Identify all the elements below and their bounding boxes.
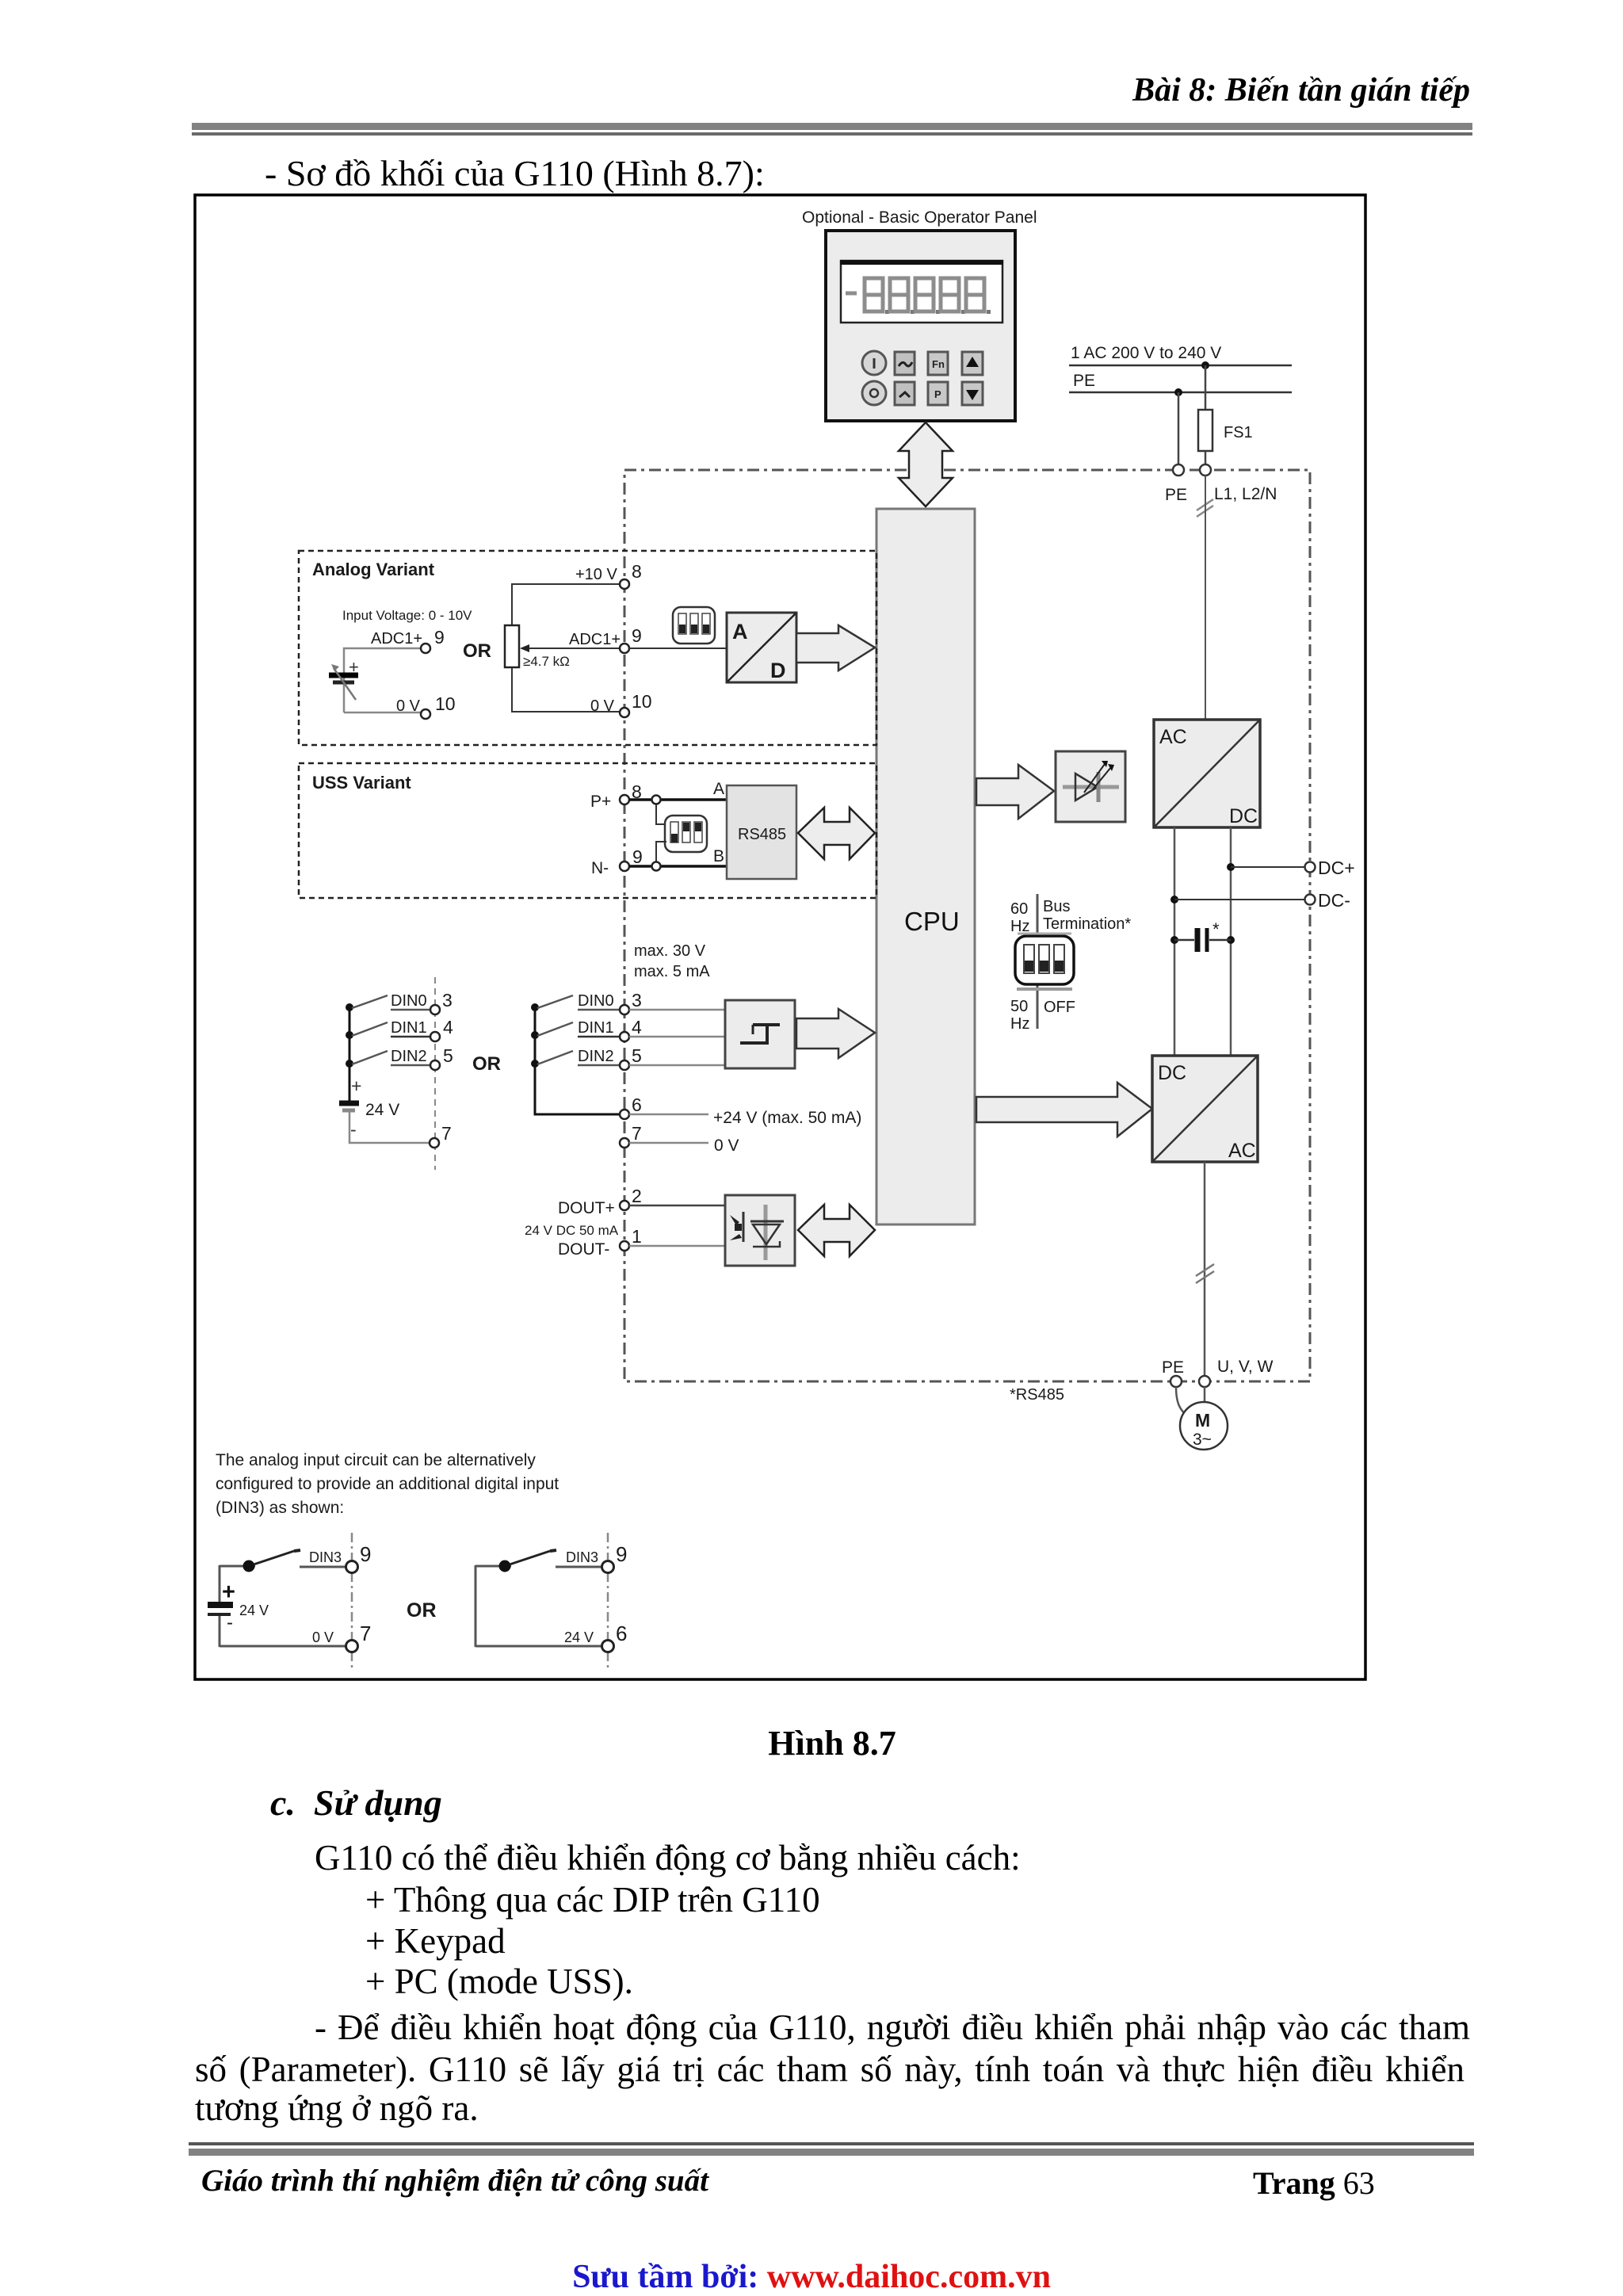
DIN3 right circuit wires xyxy=(475,1565,602,1647)
node DIN2 right xyxy=(531,1060,539,1068)
svg-text:DIN0: DIN0 xyxy=(391,992,427,1010)
terminal 9 USS xyxy=(620,846,643,871)
BOP buttons xyxy=(862,351,983,405)
node DC+ xyxy=(1227,863,1235,871)
svg-text:Termination*: Termination* xyxy=(1043,915,1131,933)
wire: wiper to terminal 9 xyxy=(520,644,620,652)
label DOUT- xyxy=(558,1240,609,1259)
wire DOUT+ xyxy=(629,1205,725,1207)
wire DC bus right xyxy=(1230,827,1232,1056)
label A xyxy=(713,780,724,798)
svg-text:5: 5 xyxy=(443,1045,453,1066)
wire: L1 drop xyxy=(1205,365,1207,410)
cable break mark xyxy=(1197,499,1213,517)
svg-text:-: - xyxy=(350,1119,357,1140)
svg-text:OR: OR xyxy=(407,1599,437,1622)
svg-text:9: 9 xyxy=(616,1542,627,1566)
switch DIN0 left xyxy=(352,995,388,1008)
terminal 6 xyxy=(620,1095,642,1119)
switch DIN3 right xyxy=(510,1550,556,1564)
svg-text:max. 5 mA: max. 5 mA xyxy=(634,963,710,980)
svg-text:The analog input circuit can b: The analog input circuit can be alternat… xyxy=(216,1451,536,1469)
CPU block xyxy=(876,509,975,1224)
wire DC bus left xyxy=(1174,827,1176,1056)
label max5mA xyxy=(634,963,710,980)
label PE out xyxy=(1162,1358,1184,1377)
label OR din3 xyxy=(407,1599,437,1622)
motor M3~ xyxy=(1180,1402,1228,1450)
wire 0V out xyxy=(629,1142,708,1144)
label 0V right xyxy=(590,697,615,715)
wire: terminal 9 to ADC xyxy=(629,648,727,649)
header rule thick xyxy=(192,123,1472,130)
label UVW xyxy=(1217,1358,1274,1376)
DIN3 right dashdot xyxy=(607,1533,609,1671)
label 0V left xyxy=(396,697,421,715)
wire DC- xyxy=(1174,899,1305,900)
svg-text:USS Variant: USS Variant xyxy=(312,773,411,793)
svg-text:Optional - Basic Operator Pane: Optional - Basic Operator Panel xyxy=(802,208,1037,227)
label 0V DIN3 xyxy=(312,1629,334,1645)
wire UVW to motor xyxy=(1204,1387,1206,1403)
wire DIN0 to threshold xyxy=(629,1009,727,1011)
label ADC1+ left xyxy=(371,630,422,648)
fuse FS1 xyxy=(1198,410,1253,451)
switch DIN3 left xyxy=(254,1550,300,1564)
section c xyxy=(270,1782,442,1824)
label N- xyxy=(591,859,609,877)
svg-text:+: + xyxy=(222,1580,235,1605)
DIN3 left circuit wires xyxy=(220,1565,346,1647)
svg-text:P+: P+ xyxy=(590,793,611,811)
wire: PE line xyxy=(1069,392,1292,394)
terminal 7 left xyxy=(430,1123,452,1148)
label PE xyxy=(1073,372,1095,390)
terminal 9 left xyxy=(421,627,445,653)
wire DC+ xyxy=(1231,866,1305,868)
svg-text:DC-: DC- xyxy=(1318,890,1350,911)
terminal 7 xyxy=(620,1123,642,1148)
wire: fuse to terminal xyxy=(1205,451,1207,465)
svg-text:10: 10 xyxy=(632,691,652,712)
svg-text:60: 60 xyxy=(1010,900,1028,918)
svg-text:9: 9 xyxy=(632,625,642,646)
power feed label xyxy=(1071,344,1221,362)
node: P+ stub circle xyxy=(652,796,661,804)
optocoupler block xyxy=(725,1195,795,1266)
svg-text:DC: DC xyxy=(1229,805,1258,827)
DC-AC inverter block xyxy=(1152,1056,1258,1162)
svg-text:0 V: 0 V xyxy=(396,697,421,715)
svg-text:*RS485: *RS485 xyxy=(1010,1386,1064,1404)
wire DIN1 to threshold xyxy=(629,1036,727,1038)
svg-text:+: + xyxy=(351,1075,361,1096)
svg-text:5: 5 xyxy=(632,1045,642,1066)
wire DIN2 to threshold xyxy=(629,1064,727,1067)
terminal 10 left xyxy=(421,693,456,719)
svg-text:Hz: Hz xyxy=(1010,1015,1029,1033)
svg-text:AC: AC xyxy=(1228,1140,1256,1162)
svg-text:DIN2: DIN2 xyxy=(578,1048,614,1065)
switch DIN1 left xyxy=(352,1022,388,1036)
terminal 9 DIN3 right xyxy=(602,1542,628,1573)
label DIN2 left xyxy=(391,1048,430,1065)
DIP switch bus termination xyxy=(1015,934,1074,989)
left DIN dashed line xyxy=(434,977,436,1170)
note text line1 xyxy=(216,1451,536,1469)
intro line xyxy=(265,152,765,194)
DIP switch analog xyxy=(673,607,715,644)
svg-text:DC: DC xyxy=(1158,1062,1186,1084)
svg-text:Fn: Fn xyxy=(932,358,945,370)
svg-text:2: 2 xyxy=(632,1186,642,1206)
svg-text:DOUT+: DOUT+ xyxy=(558,1199,615,1217)
svg-text:DIN3: DIN3 xyxy=(309,1549,342,1565)
terminal 2 xyxy=(620,1186,642,1210)
terminal 1 xyxy=(620,1226,642,1251)
svg-text:OR: OR xyxy=(472,1053,501,1075)
svg-text:0 V: 0 V xyxy=(312,1629,334,1645)
battery 24V DIN3 xyxy=(208,1580,269,1633)
potentiometer 4.7k xyxy=(505,625,570,669)
label max30V xyxy=(634,942,706,960)
svg-text:7: 7 xyxy=(360,1622,371,1645)
svg-text:DC+: DC+ xyxy=(1318,858,1355,878)
terminal UVW xyxy=(1199,1376,1210,1387)
wire: AC line xyxy=(1069,365,1292,367)
svg-text:DIN1: DIN1 xyxy=(578,1019,614,1037)
caption xyxy=(436,1723,1228,1763)
label *RS485 xyxy=(1010,1386,1064,1404)
A/D converter block xyxy=(727,613,796,682)
label OR analog xyxy=(463,640,491,662)
label: Optional - Basic Operator Panel xyxy=(802,208,1037,227)
cable break out xyxy=(1196,1264,1214,1283)
terminal 10 xyxy=(620,691,652,717)
svg-text:(DIN3) as shown:: (DIN3) as shown: xyxy=(216,1499,344,1517)
terminal 8 USS xyxy=(620,781,642,804)
node DIN0 left xyxy=(346,1003,353,1011)
wire: N- to DIP xyxy=(656,842,666,862)
label +24V max 50mA xyxy=(713,1109,861,1127)
terminal 3 xyxy=(620,990,642,1014)
label DIN2 right xyxy=(578,1048,620,1065)
svg-text:M: M xyxy=(1195,1410,1210,1431)
label DIN0 left xyxy=(391,992,430,1010)
svg-text:1: 1 xyxy=(632,1226,642,1247)
svg-text:1 AC 200 V to 240 V: 1 AC 200 V to 240 V xyxy=(1071,344,1221,362)
svg-text:ADC1+: ADC1+ xyxy=(371,630,422,648)
svg-text:A: A xyxy=(713,780,724,798)
label 24V right xyxy=(564,1629,594,1645)
svg-text:DIN0: DIN0 xyxy=(578,992,614,1010)
label input voltage xyxy=(342,608,472,623)
label B xyxy=(713,847,724,865)
label DIN1 left xyxy=(391,1019,430,1037)
label DIN0 right xyxy=(578,992,620,1010)
svg-text:Analog Variant: Analog Variant xyxy=(312,560,435,579)
label PE under entry xyxy=(1165,486,1187,504)
svg-text:24 V DC 50 mA: 24 V DC 50 mA xyxy=(525,1223,619,1238)
svg-text:24 V: 24 V xyxy=(564,1629,594,1645)
terminal DC+ xyxy=(1305,858,1355,878)
body text xyxy=(315,1837,1021,1878)
note text line3 xyxy=(216,1499,344,1517)
terminal 9 xyxy=(620,625,642,653)
svg-text:0 V: 0 V xyxy=(590,697,615,715)
wire: N- to RS485 xyxy=(629,865,727,868)
svg-text:24 V: 24 V xyxy=(239,1603,269,1618)
svg-text:DIN2: DIN2 xyxy=(391,1048,427,1065)
footer right xyxy=(1253,2164,1375,2202)
svg-text:D: D xyxy=(770,659,786,682)
svg-text:-: - xyxy=(227,1612,233,1633)
label +10V xyxy=(575,566,617,583)
svg-text:10: 10 xyxy=(435,693,456,714)
svg-text:8: 8 xyxy=(632,561,642,582)
node: L1 tap xyxy=(1201,361,1209,369)
RS485 block xyxy=(727,785,796,879)
analog source 0-10V xyxy=(329,657,359,700)
wire: PE drop xyxy=(1178,392,1180,465)
svg-text:configured to provide an addit: configured to provide an additional digi… xyxy=(216,1475,559,1493)
terminal 3 left xyxy=(430,990,453,1014)
svg-text:4: 4 xyxy=(443,1017,453,1037)
svg-text:PE: PE xyxy=(1162,1358,1184,1377)
terminal 8 xyxy=(620,561,642,589)
G110 enclosure dash-dot xyxy=(624,470,1310,1381)
svg-text:+24 V (max. 50 mA): +24 V (max. 50 mA) xyxy=(713,1109,861,1127)
svg-text:FS1: FS1 xyxy=(1224,424,1253,441)
AC-DC rectifier block xyxy=(1154,720,1260,827)
svg-text:3: 3 xyxy=(632,990,642,1010)
USS Variant box xyxy=(299,763,876,898)
svg-text:7: 7 xyxy=(632,1123,642,1144)
svg-text:PE: PE xyxy=(1165,486,1187,504)
terminal 5 left xyxy=(430,1045,453,1070)
label L1,L2/N xyxy=(1214,485,1277,503)
svg-text:P: P xyxy=(934,388,941,400)
svg-text:*: * xyxy=(1212,919,1220,939)
wire: P+ to RS485 xyxy=(629,798,727,801)
svg-text:50: 50 xyxy=(1010,998,1028,1015)
wire PE to motor xyxy=(1176,1387,1186,1415)
BOP 7-segment display xyxy=(846,278,991,314)
node: N- stub circle xyxy=(652,862,661,871)
svg-text:0 V: 0 V xyxy=(714,1137,739,1155)
svg-text:9: 9 xyxy=(360,1542,371,1566)
switch DIN2 right xyxy=(537,1051,573,1064)
svg-text:DOUT-: DOUT- xyxy=(558,1240,609,1259)
svg-text:24 V: 24 V xyxy=(365,1101,399,1119)
node DC- xyxy=(1170,896,1178,904)
switch DIN2 left xyxy=(352,1051,388,1064)
bus termination labels xyxy=(1010,894,1131,1029)
node DIN3 right xyxy=(499,1561,511,1572)
label DOUT+ xyxy=(558,1199,615,1217)
header title xyxy=(1132,71,1470,109)
wire: P+ to DIP xyxy=(656,804,666,824)
wire: pot bottom to terminal 10 xyxy=(512,667,620,712)
arrow threshold to CPU xyxy=(796,1009,875,1058)
svg-text:4: 4 xyxy=(632,1017,642,1037)
terminal L1 entry xyxy=(1200,464,1211,476)
arrow CPU to DCAC xyxy=(976,1083,1152,1137)
label ADC1+ right xyxy=(569,631,621,648)
arrow RS485 CPU bidir xyxy=(798,808,875,859)
BOP link arrow xyxy=(899,422,953,506)
label 24VDC50mA xyxy=(525,1223,619,1238)
node DIN1 left xyxy=(346,1031,353,1039)
note text line2 xyxy=(216,1475,559,1493)
terminal PE entry xyxy=(1173,464,1184,476)
svg-text:Input Voltage: 0 - 10V: Input Voltage: 0 - 10V xyxy=(342,608,472,623)
labels 50Hz OFF xyxy=(1010,998,1075,1033)
wire: L1 to ACDC xyxy=(1205,476,1206,720)
terminal 9 DIN3 left xyxy=(346,1542,372,1573)
svg-text:PE: PE xyxy=(1073,372,1095,390)
threshold block xyxy=(725,1000,795,1068)
wire: source top xyxy=(344,648,421,712)
svg-text:B: B xyxy=(713,847,724,865)
svg-text:6: 6 xyxy=(616,1622,627,1645)
wire DOUT- xyxy=(629,1245,725,1247)
wire inverter out xyxy=(1204,1162,1206,1377)
header rule thin xyxy=(192,132,1472,136)
node DIN0 right xyxy=(531,1003,539,1011)
footer rules xyxy=(189,2142,1474,2145)
svg-text:ADC1+: ADC1+ xyxy=(569,631,621,648)
label 0V out xyxy=(714,1137,739,1155)
terminal 5 xyxy=(620,1045,642,1070)
label P+ xyxy=(590,793,611,811)
arrow opto CPU bidir xyxy=(798,1205,875,1256)
svg-text:Bus: Bus xyxy=(1043,898,1070,915)
svg-text:RS485: RS485 xyxy=(738,826,786,843)
switch DIN0 right xyxy=(537,995,573,1008)
gate drive block xyxy=(1056,751,1125,822)
svg-text:max. 30 V: max. 30 V xyxy=(634,942,706,960)
svg-text:9: 9 xyxy=(632,846,643,867)
svg-text:≥4.7 kΩ: ≥4.7 kΩ xyxy=(523,654,570,669)
svg-text:A: A xyxy=(732,620,748,644)
DIN3 left dashdot xyxy=(351,1533,353,1671)
terminal PE out xyxy=(1170,1376,1182,1387)
svg-text:DIN1: DIN1 xyxy=(391,1019,427,1037)
left DIN bus wire xyxy=(349,1006,351,1102)
switch DIN1 right xyxy=(537,1022,573,1036)
right DIN bus wire xyxy=(535,1006,620,1114)
footer left xyxy=(201,2163,708,2199)
svg-text:7: 7 xyxy=(441,1123,452,1144)
figure frame xyxy=(195,195,1365,1679)
svg-text:+10 V: +10 V xyxy=(575,566,617,583)
label DIN3 right xyxy=(566,1549,598,1565)
svg-text:AC: AC xyxy=(1159,726,1187,748)
terminal 7 DIN3 xyxy=(346,1622,372,1652)
terminal 4 left xyxy=(430,1017,453,1041)
DIP switch USS xyxy=(665,816,707,852)
node DIN2 left xyxy=(346,1060,353,1068)
operator panel BOP xyxy=(826,231,1015,421)
label DIN3 left xyxy=(309,1549,342,1565)
label DIN1 right xyxy=(578,1019,620,1037)
arrow AD to CPU xyxy=(796,625,875,670)
svg-text:CPU: CPU xyxy=(904,907,960,936)
terminal 4 xyxy=(620,1017,642,1041)
battery 24V xyxy=(339,1075,399,1140)
svg-text:N-: N- xyxy=(591,859,609,877)
bottom credit xyxy=(0,2258,1623,2296)
svg-text:3~: 3~ xyxy=(1193,1431,1212,1449)
svg-text:OFF: OFF xyxy=(1044,999,1075,1016)
DC link capacitor xyxy=(1170,919,1235,952)
arrow CPU to gatedrive xyxy=(976,765,1054,819)
svg-text:6: 6 xyxy=(632,1095,642,1115)
wire battery to terminal 7 left xyxy=(349,1112,430,1143)
svg-text:L1, L2/N: L1, L2/N xyxy=(1214,485,1277,503)
wire: source bottom xyxy=(344,712,421,714)
wire: pot top to terminal 8 xyxy=(512,584,620,625)
svg-text:DIN3: DIN3 xyxy=(566,1549,598,1565)
terminal 6 DIN3 xyxy=(602,1622,628,1652)
label OR din xyxy=(472,1053,501,1075)
svg-text:9: 9 xyxy=(434,627,445,648)
terminal DC- xyxy=(1305,890,1350,911)
Analog Variant box xyxy=(299,551,876,745)
node DIN3 left xyxy=(243,1561,255,1572)
wire +24V out xyxy=(629,1114,708,1116)
svg-text:OR: OR xyxy=(463,640,491,662)
svg-text:U, V, W: U, V, W xyxy=(1217,1358,1274,1376)
node DIN1 right xyxy=(531,1031,539,1039)
svg-text:3: 3 xyxy=(442,990,453,1010)
node: PE tap xyxy=(1174,388,1182,396)
